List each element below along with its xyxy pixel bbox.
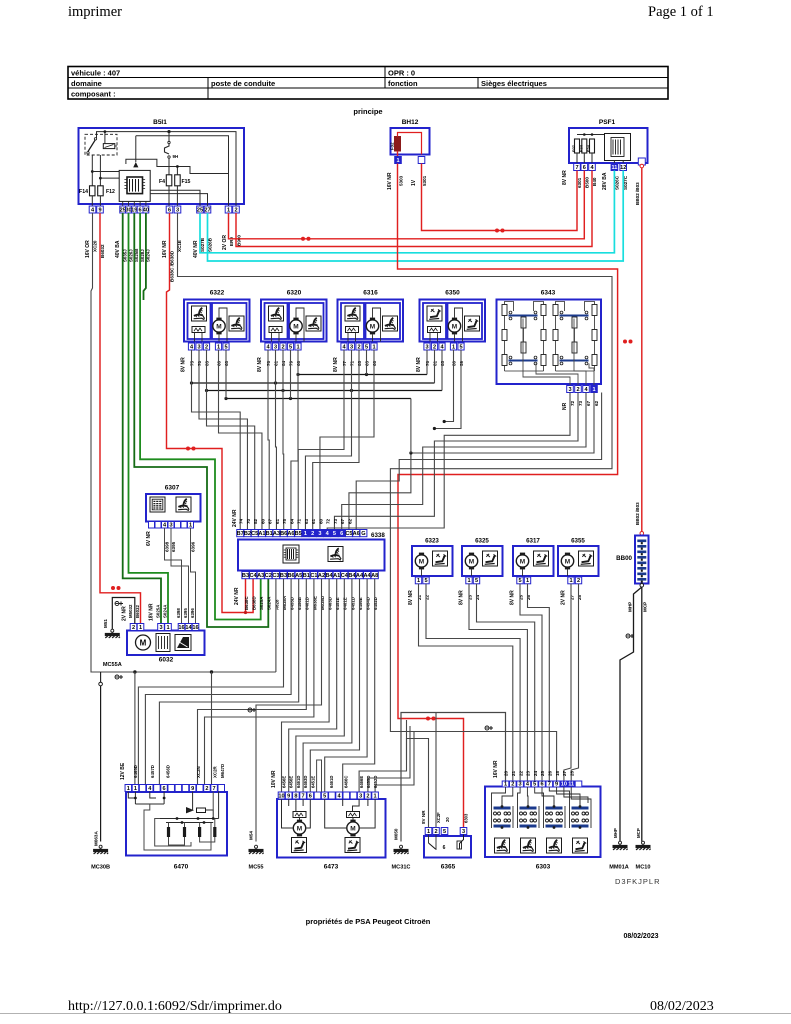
- svg-text:6: 6: [443, 845, 446, 851]
- svg-text:1: 1: [227, 207, 230, 213]
- wires 6473 right pins risers: [359, 720, 406, 792]
- 6316 pins: [341, 343, 347, 350]
- svg-text:B500: B500: [584, 177, 589, 188]
- 6323 motor: [415, 553, 427, 570]
- 6365 internals: [428, 835, 430, 844]
- 6303 seat icon: [521, 838, 536, 853]
- svg-text:83: 83: [205, 360, 210, 366]
- PSF1 pins 11 12: [611, 164, 618, 171]
- svg-text:composant :: composant :: [71, 90, 116, 99]
- 6355 seat icon: [579, 551, 594, 566]
- 6303 internal wiring: [492, 787, 506, 806]
- svg-text:1: 1: [427, 829, 430, 835]
- wire MC30B ground drop: [99, 682, 103, 686]
- 6473 motor unit 1: [293, 812, 306, 818]
- 6355 pins: [568, 577, 574, 584]
- svg-text:16V NR: 16V NR: [493, 760, 499, 778]
- wire harness 6350 into right riser: [444, 350, 453, 422]
- 6343 pins 3 2 4 1: [567, 386, 574, 393]
- svg-text:BB02 /B03: BB02 /B03: [635, 502, 640, 525]
- svg-text:F34: F34: [578, 144, 583, 152]
- svg-text:16: 16: [178, 625, 184, 631]
- wire bus sensor supply 3: [207, 390, 443, 392]
- 6338 top pins: [237, 530, 244, 537]
- svg-text:domaine: domaine: [71, 79, 102, 88]
- svg-text:73: 73: [333, 518, 338, 524]
- svg-text:http://127.0.0.1:6092/Sdr/impr: http://127.0.0.1:6092/Sdr/imprimer.do: [68, 999, 282, 1014]
- svg-text:28: 28: [569, 770, 574, 776]
- svg-text:9: 9: [287, 793, 290, 799]
- relay K1 (dashed): [85, 134, 117, 155]
- svg-text:6396: 6396: [190, 608, 195, 618]
- svg-text:6320: 6320: [287, 290, 302, 297]
- BH12 pin 5303: [395, 157, 402, 164]
- svg-text:5: 5: [224, 344, 227, 350]
- svg-text:B2: B2: [244, 531, 251, 537]
- svg-text:12: 12: [620, 165, 626, 171]
- wire green S024 to 6338: [140, 213, 261, 620]
- svg-text:6451D: 6451D: [350, 597, 355, 610]
- svg-text:1: 1: [217, 344, 220, 350]
- svg-text:1V: 1V: [411, 179, 417, 186]
- ground junction marker: [115, 602, 123, 606]
- svg-text:16V OR: 16V OR: [85, 240, 91, 258]
- wire 6338 k17 to 6473.4: [343, 579, 375, 792]
- svg-text:2: 2: [311, 531, 314, 537]
- svg-text:B5: B5: [295, 531, 302, 537]
- component PSF1 box: [569, 128, 648, 163]
- svg-text:6: 6: [168, 207, 171, 213]
- 6325 pins: [466, 577, 472, 584]
- svg-text:6350: 6350: [445, 290, 460, 297]
- svg-text:6: 6: [340, 531, 343, 537]
- B5I1 internal wires to pins: [122, 201, 124, 206]
- wire green S025 to 6338: [134, 213, 268, 627]
- svg-text:8V NR: 8V NR: [416, 357, 422, 372]
- svg-text:8: 8: [294, 793, 297, 799]
- svg-text:3: 3: [274, 344, 277, 350]
- fuse F15: [175, 175, 181, 186]
- svg-text:6463D: 6463D: [303, 776, 308, 788]
- svg-text:6338: 6338: [371, 532, 385, 539]
- svg-text:PSF1: PSF1: [599, 119, 616, 126]
- 6470 diode element: [186, 807, 194, 813]
- svg-text:principe: principe: [353, 107, 382, 116]
- net link marker: [111, 586, 121, 590]
- wire harness 6320 to 6338: [268, 350, 269, 530]
- module 6338 box: [238, 540, 385, 571]
- net link marker: [186, 447, 196, 451]
- svg-text:3: 3: [169, 522, 172, 528]
- svg-text:A8: A8: [371, 573, 378, 579]
- svg-text:B5I1: B5I1: [153, 119, 167, 126]
- svg-text:3: 3: [197, 344, 200, 350]
- 6303 seat icon: [547, 838, 562, 853]
- svg-text:11: 11: [611, 165, 617, 171]
- svg-text:7: 7: [548, 781, 551, 787]
- svg-text:62: 62: [347, 518, 352, 524]
- svg-text:imprimer: imprimer: [68, 4, 122, 20]
- svg-text:7: 7: [302, 793, 305, 799]
- svg-text:5: 5: [443, 829, 446, 835]
- svg-text:6: 6: [309, 793, 312, 799]
- svg-text:1: 1: [396, 158, 399, 164]
- svg-text:8V NR: 8V NR: [181, 357, 187, 372]
- svg-text:72: 72: [570, 400, 575, 406]
- 6303 switch clusters: [494, 807, 511, 810]
- svg-text:8V NR: 8V NR: [421, 810, 426, 824]
- svg-text:6463D: 6463D: [328, 597, 333, 610]
- 6470 pins: [125, 785, 132, 792]
- svg-text:2: 2: [132, 625, 135, 631]
- ground MM01A: [613, 841, 628, 850]
- svg-text:6461E: 6461E: [343, 597, 348, 610]
- B5I1 internal top bus wire: [97, 132, 237, 206]
- 6317 pins: [517, 577, 523, 584]
- svg-text:5: 5: [323, 793, 326, 799]
- B5I1 arrow feed wire to pin1: [136, 136, 229, 206]
- svg-text:3: 3: [350, 344, 353, 350]
- svg-text:S025A: S025A: [259, 596, 264, 610]
- connector BB00: [640, 532, 644, 536]
- svg-text:12V BE: 12V BE: [120, 762, 126, 780]
- wire black B5I1.3 wrap-around to 6303: [178, 213, 613, 781]
- svg-text:6398: 6398: [176, 608, 181, 618]
- svg-text:6307: 6307: [165, 485, 180, 492]
- svg-text:3: 3: [159, 625, 162, 631]
- BH12 internal wire: [398, 133, 422, 155]
- svg-text:2: 2: [577, 578, 580, 584]
- ground MC31C: [394, 845, 409, 854]
- svg-text:OPR : 0: OPR : 0: [388, 69, 415, 78]
- svg-text:2V OR: 2V OR: [222, 235, 228, 250]
- svg-text:MM01A: MM01A: [609, 865, 629, 871]
- 6473 wire loop above pins: [317, 760, 322, 792]
- wire green S035 to 6032.3: [123, 213, 161, 624]
- wire 6322.5 to bus: [225, 350, 227, 399]
- module 6323 box: [412, 546, 453, 576]
- svg-text:6: 6: [139, 207, 142, 213]
- svg-text:10: 10: [561, 781, 567, 787]
- svg-text:MC55A: MC55A: [103, 662, 122, 668]
- svg-text:5: 5: [518, 578, 521, 584]
- svg-text:2: 2: [234, 207, 237, 213]
- svg-text:6461D: 6461D: [329, 776, 334, 788]
- svg-text:XC2R: XC2R: [213, 765, 218, 778]
- svg-text:F07: F07: [571, 144, 576, 152]
- wire 6343.1 wrap to 6338: [349, 393, 594, 530]
- 6343 resistor half-matrix: [553, 305, 558, 316]
- svg-text:2: 2: [576, 387, 579, 393]
- svg-text:8V NR: 8V NR: [459, 590, 465, 605]
- BH12 pin 6301: [418, 157, 425, 164]
- svg-text:S024A: S024A: [162, 604, 167, 618]
- svg-text:A628: A628: [274, 599, 279, 610]
- svg-text:6: 6: [583, 165, 586, 171]
- wire 6338 k10 to MC55 ground rail: [256, 579, 322, 842]
- wire bus sensor supply 2: [192, 382, 435, 384]
- svg-text:22: 22: [518, 770, 523, 776]
- svg-text:6470: 6470: [174, 864, 189, 871]
- svg-text:M: M: [140, 639, 147, 648]
- svg-text:77: 77: [342, 360, 347, 366]
- svg-text:B6: B6: [288, 573, 295, 579]
- svg-text:6325: 6325: [475, 538, 489, 545]
- 6316 motor cell: [366, 303, 401, 339]
- fuse F32: [395, 137, 401, 152]
- svg-text:8V NR: 8V NR: [257, 357, 263, 372]
- wires 6338 to 6470: [138, 579, 283, 785]
- svg-text:MC55: MC55: [249, 865, 264, 871]
- ground junction marker: [485, 726, 493, 730]
- PSF1 control unit: [605, 134, 631, 161]
- 6322 pins: [188, 343, 194, 350]
- svg-text:1: 1: [467, 578, 470, 584]
- svg-text:6452D: 6452D: [373, 597, 378, 610]
- wire red B638 B5I1.6 to 6338: [167, 213, 254, 613]
- svg-text:B40: B40: [592, 177, 597, 186]
- fuse F12: [98, 186, 104, 196]
- svg-text:10V NR: 10V NR: [271, 770, 277, 788]
- svg-text:9: 9: [555, 781, 558, 787]
- wires 6323/6325/6317 to 6303: [419, 584, 513, 781]
- wire 6307 to 6032: [165, 528, 182, 624]
- svg-text:MC10: MC10: [636, 865, 651, 871]
- svg-text:40: 40: [143, 207, 149, 213]
- svg-text:25: 25: [540, 770, 545, 776]
- svg-text:6395: 6395: [171, 541, 176, 552]
- svg-text:8V NR: 8V NR: [333, 357, 339, 372]
- module 6316 box: [338, 300, 404, 342]
- svg-text:6303: 6303: [464, 813, 469, 823]
- svg-text:2V NR: 2V NR: [122, 606, 128, 621]
- svg-text:2: 2: [433, 344, 436, 350]
- svg-text:70: 70: [197, 360, 202, 366]
- svg-text:19: 19: [131, 207, 137, 213]
- svg-text:76: 76: [425, 360, 430, 366]
- svg-text:6461D: 6461D: [305, 597, 310, 610]
- svg-text:1: 1: [417, 578, 420, 584]
- wire green S026 to 6032.1: [129, 213, 169, 624]
- B5I1 roof staircase wire: [126, 159, 229, 173]
- svg-text:NR: NR: [562, 402, 568, 410]
- module 6350 box: [420, 300, 486, 342]
- svg-text:6455D: 6455D: [290, 597, 295, 610]
- svg-text:3: 3: [318, 531, 321, 537]
- svg-text:6456D: 6456D: [166, 765, 171, 778]
- svg-text:6323: 6323: [425, 538, 439, 545]
- 6303 pins: [502, 781, 509, 787]
- svg-text:7: 7: [575, 165, 578, 171]
- svg-text:1: 1: [127, 786, 130, 792]
- svg-text:24: 24: [533, 770, 538, 776]
- svg-text:60: 60: [217, 360, 222, 366]
- 6343 internal drop wires: [523, 319, 570, 386]
- svg-text:9: 9: [98, 207, 101, 213]
- BB00 ground wires MHP MCP: [620, 587, 642, 842]
- svg-text:61: 61: [274, 360, 279, 366]
- svg-text:6317: 6317: [526, 538, 540, 545]
- svg-text:3: 3: [519, 781, 522, 787]
- component B5I1 box: [79, 128, 245, 204]
- module 6032 box: [127, 631, 205, 656]
- svg-text:6398: 6398: [165, 541, 170, 552]
- svg-text:80: 80: [452, 360, 457, 366]
- svg-text:1: 1: [504, 781, 507, 787]
- svg-text:1: 1: [592, 387, 595, 393]
- wire net supply B5I1.2-PSF1.4: [236, 171, 592, 247]
- svg-text:B638C: B638C: [244, 596, 249, 610]
- svg-text:S024A: S024A: [267, 596, 272, 610]
- svg-text:6455D: 6455D: [366, 776, 371, 788]
- svg-text:2: 2: [205, 344, 208, 350]
- B5I1 control unit block: [119, 170, 150, 201]
- svg-text:75: 75: [282, 518, 287, 524]
- svg-text:C3: C3: [272, 573, 279, 579]
- 6323 pins: [415, 577, 421, 584]
- svg-text:40V BA: 40V BA: [115, 240, 121, 258]
- svg-text:M638E: M638E: [312, 596, 317, 610]
- svg-text:MCP: MCP: [643, 602, 648, 612]
- svg-text:A1: A1: [333, 573, 340, 579]
- module 6470 box: [126, 792, 227, 856]
- svg-text:6461D: 6461D: [296, 776, 301, 788]
- svg-text:1: 1: [134, 786, 137, 792]
- svg-text:8V NR: 8V NR: [408, 590, 414, 605]
- svg-text:21: 21: [417, 594, 422, 600]
- wire bus sensor supply 1: [298, 374, 427, 376]
- svg-text:B638D: B638D: [252, 596, 257, 610]
- svg-text:84: 84: [281, 360, 286, 366]
- svg-text:M54: M54: [249, 831, 254, 840]
- 6317 motor: [516, 553, 528, 570]
- svg-text:21: 21: [511, 770, 516, 776]
- svg-text:68: 68: [224, 360, 229, 366]
- svg-text:MC30B: MC30B: [91, 865, 110, 871]
- 6325 motor: [465, 553, 477, 570]
- module 6365 box: [424, 836, 471, 858]
- svg-text:6: 6: [540, 781, 543, 787]
- svg-text:6322: 6322: [210, 290, 225, 297]
- svg-text:22: 22: [424, 594, 429, 600]
- svg-text:23: 23: [526, 770, 531, 776]
- svg-text:3: 3: [359, 793, 362, 799]
- 6032 window icon: [175, 635, 191, 651]
- svg-text:6355: 6355: [571, 538, 585, 545]
- wire 6338 k4 to MC30B rail: [275, 579, 277, 672]
- wire MC55A to 6032.2: [112, 598, 135, 630]
- svg-text:27: 27: [204, 207, 210, 213]
- svg-text:6466E: 6466E: [359, 776, 364, 788]
- svg-text:M050: M050: [394, 828, 399, 840]
- 6470 internal rail: [160, 818, 219, 820]
- svg-text:A6: A6: [353, 531, 360, 537]
- svg-text:85: 85: [357, 360, 362, 366]
- 6338 bottom pins: [242, 572, 249, 579]
- ground MC55A: [105, 629, 120, 638]
- svg-text:Page 1 of 1: Page 1 of 1: [648, 4, 714, 20]
- svg-text:5303: 5303: [399, 175, 404, 186]
- 6032 motor: [136, 635, 151, 650]
- wire 6343.3 wrap to 6338: [327, 393, 570, 530]
- svg-text:6456E: 6456E: [358, 597, 363, 610]
- 6473 pins: [278, 792, 285, 799]
- svg-text:MCP: MCP: [636, 828, 641, 838]
- 6470 internal bus wires: [128, 792, 135, 799]
- svg-text:C5: C5: [345, 531, 352, 537]
- svg-text:M51: M51: [103, 619, 108, 628]
- svg-text:XC20: XC20: [93, 240, 98, 252]
- svg-text:BH12: BH12: [402, 119, 419, 126]
- svg-text:MC31C: MC31C: [392, 865, 411, 871]
- svg-text:67: 67: [586, 400, 591, 406]
- svg-text:MHP: MHP: [613, 828, 618, 838]
- svg-text:6456B: 6456B: [297, 597, 302, 610]
- svg-text:8V NR: 8V NR: [562, 170, 568, 185]
- svg-text:6316: 6316: [363, 290, 378, 297]
- svg-text:1: 1: [189, 522, 192, 528]
- svg-text:75: 75: [190, 360, 195, 366]
- wires 6338 to 6473: [282, 579, 330, 792]
- svg-text:M638A: M638A: [282, 595, 287, 610]
- svg-text:82: 82: [253, 518, 258, 524]
- relay 9H contact: [168, 132, 170, 142]
- wire 6343.2 wrap to 6338: [334, 393, 578, 530]
- svg-text:B3: B3: [242, 573, 249, 579]
- svg-text:A5: A5: [295, 573, 302, 579]
- svg-text:16V NR: 16V NR: [162, 240, 168, 258]
- svg-text:M5032: M5032: [128, 604, 133, 618]
- svg-text:5: 5: [424, 578, 427, 584]
- 6365 pins: [425, 828, 432, 835]
- ground MC55: [249, 845, 264, 854]
- svg-text:18: 18: [555, 770, 560, 776]
- print footer rule: [0, 1013, 791, 1015]
- svg-text:1: 1: [296, 344, 299, 350]
- module 6307 box: [146, 494, 201, 522]
- svg-text:73: 73: [578, 400, 583, 406]
- B5I1 pins 4 9: [89, 206, 96, 213]
- module 6320 box: [261, 300, 327, 342]
- svg-text:7: 7: [213, 786, 216, 792]
- svg-text:81: 81: [433, 360, 438, 366]
- svg-text:1: 1: [139, 625, 142, 631]
- svg-text:72: 72: [326, 518, 331, 524]
- 6303 seat icon: [495, 838, 510, 853]
- svg-text:B7: B7: [237, 531, 244, 537]
- wire 6343.4 wrap to 6338: [342, 393, 586, 530]
- wire green S028 stub: [144, 213, 146, 300]
- wire MC31C rail to 6303.1: [401, 713, 506, 842]
- module 6325 box: [462, 546, 503, 576]
- svg-text:D3FKJPLR: D3FKJPLR: [615, 877, 661, 886]
- svg-text:XC2N: XC2N: [196, 766, 201, 778]
- svg-text:6395: 6395: [183, 608, 188, 618]
- 6323 seat icon: [433, 551, 448, 566]
- wire cyan S027 B5I1.27-PSF1.12: [208, 171, 624, 262]
- svg-text:27: 27: [569, 594, 574, 600]
- svg-text:6303: 6303: [536, 864, 551, 871]
- svg-text:6457D: 6457D: [150, 765, 155, 778]
- svg-text:16V NR: 16V NR: [387, 172, 393, 190]
- svg-text:63: 63: [304, 518, 309, 524]
- svg-text:28V BA: 28V BA: [602, 172, 608, 190]
- svg-text:C2: C2: [265, 573, 272, 579]
- net link marker: [426, 717, 436, 721]
- svg-text:26: 26: [548, 770, 553, 776]
- 6032 pins 2 1: [130, 624, 137, 631]
- svg-text:24: 24: [475, 594, 480, 600]
